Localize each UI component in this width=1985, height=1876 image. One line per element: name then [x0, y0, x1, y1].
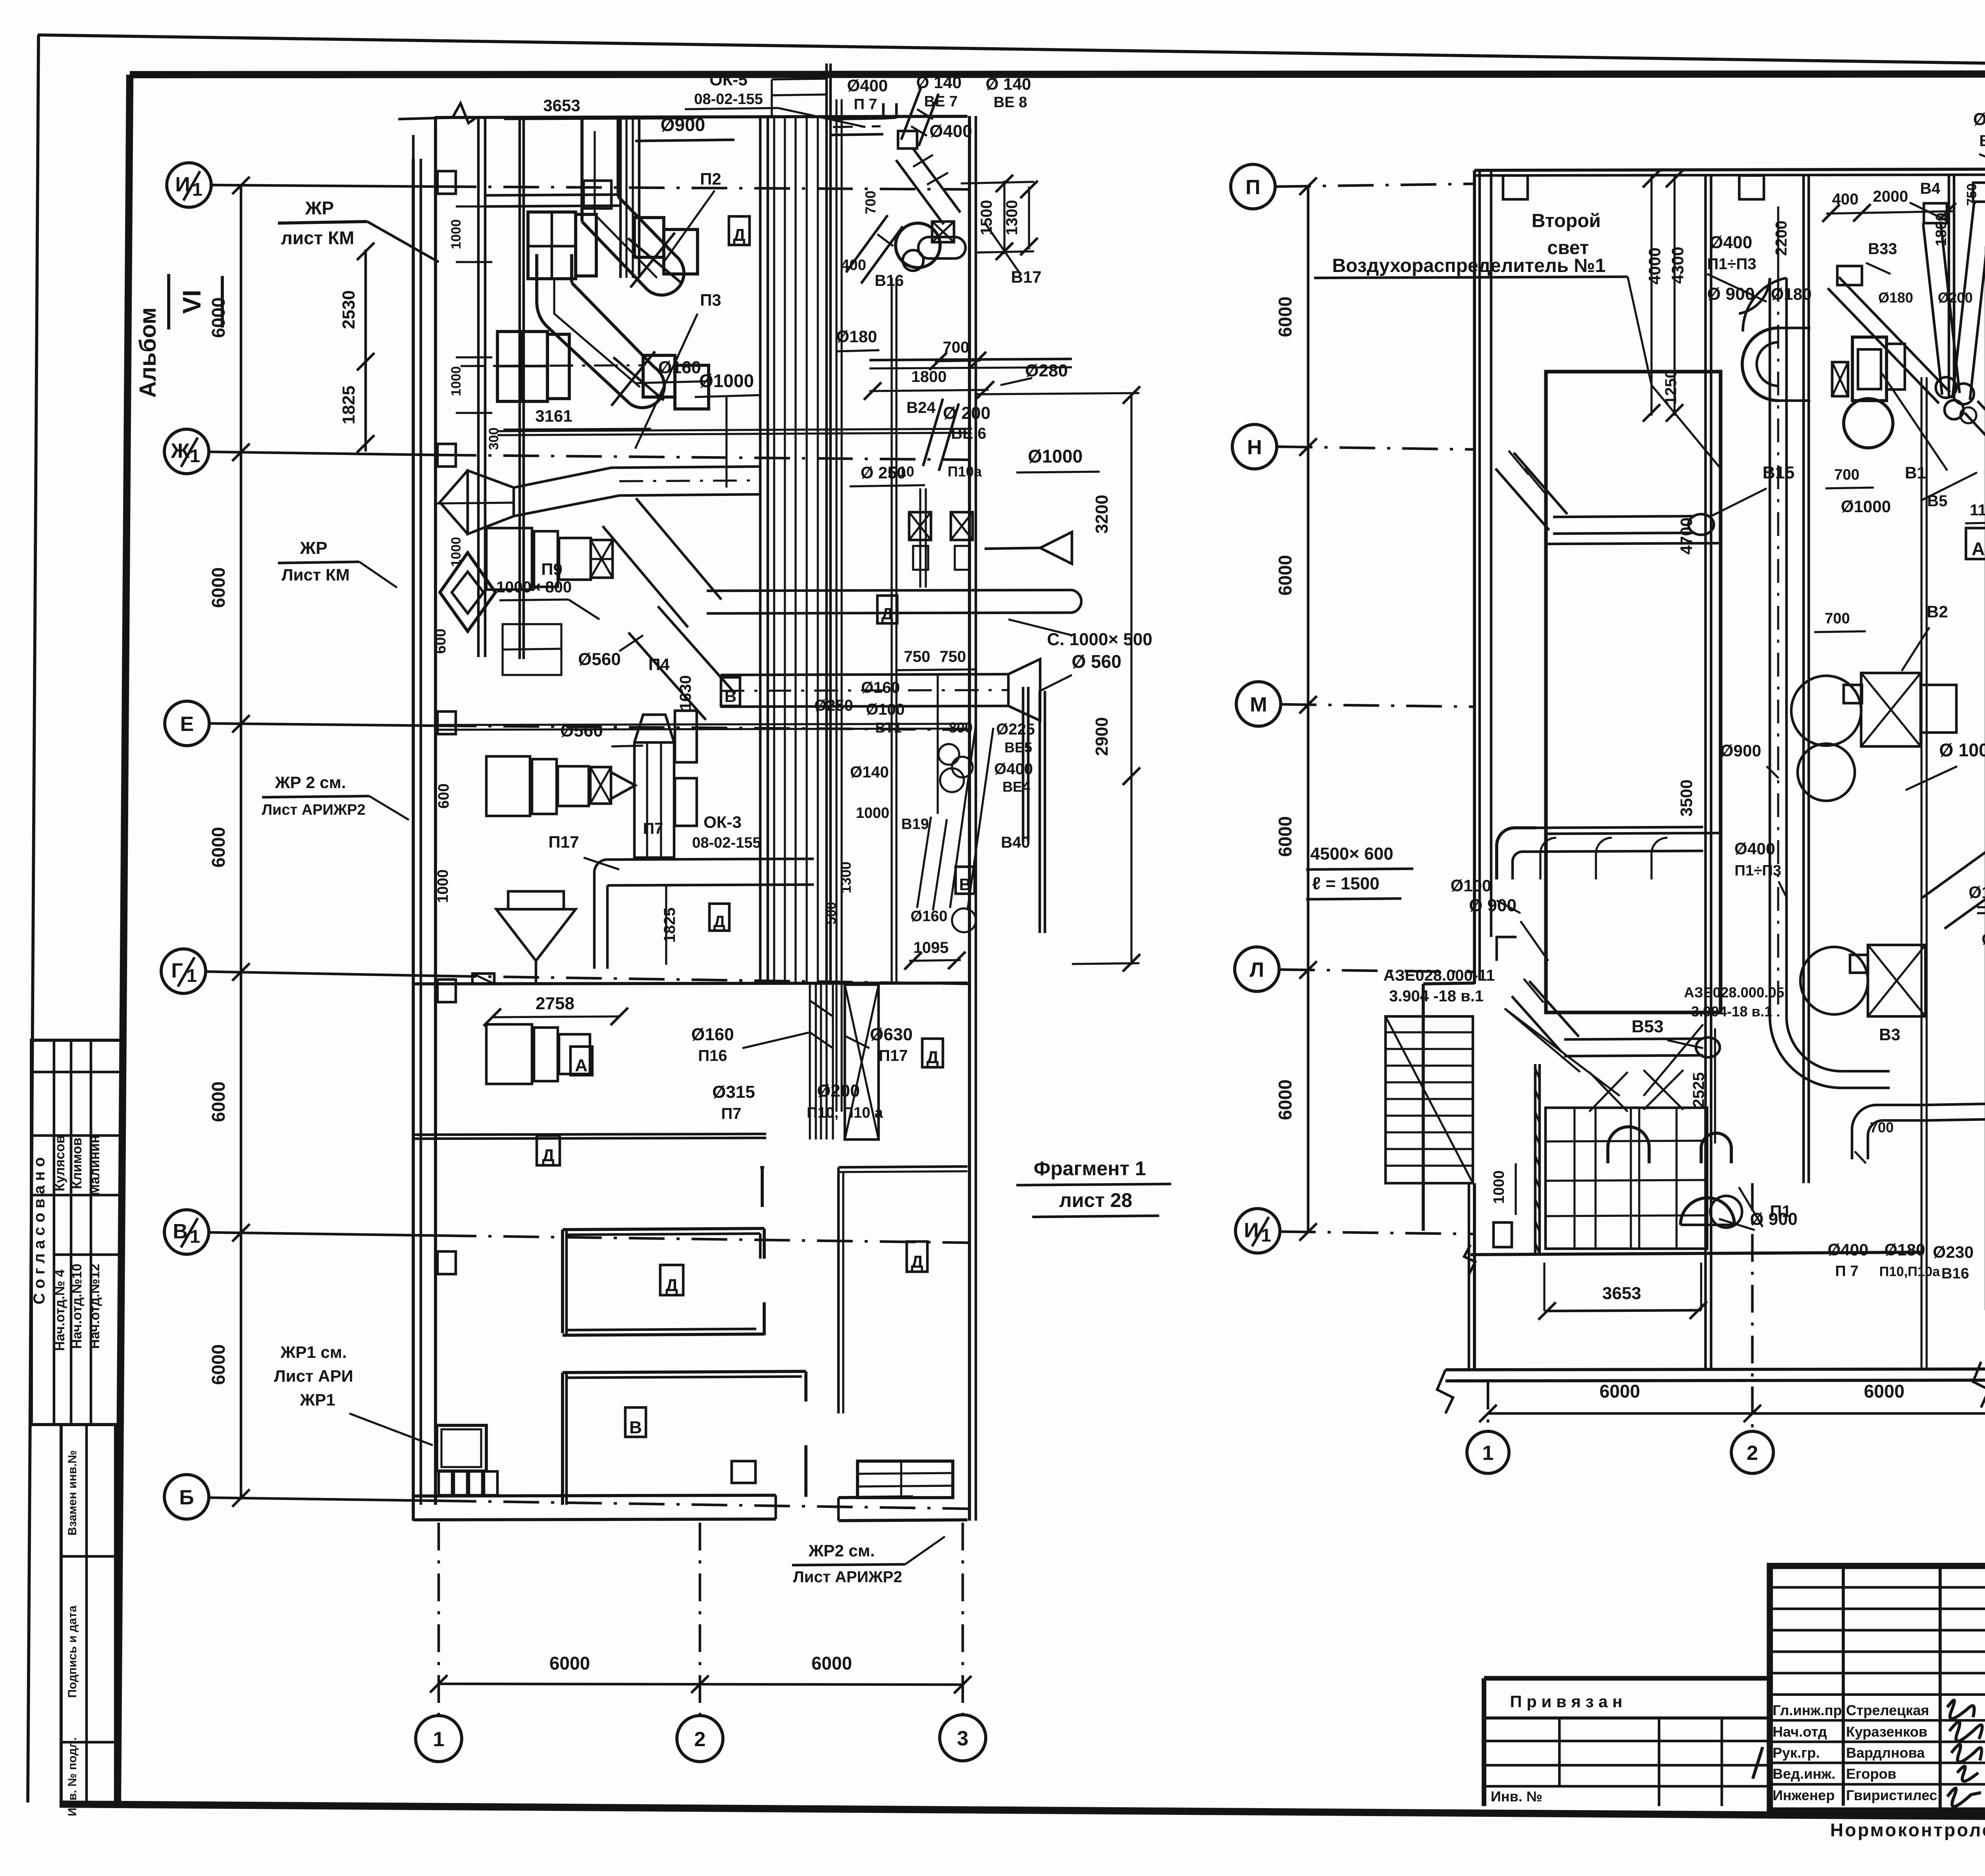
- exhaust cluster fitting circles: [1936, 377, 1956, 398]
- thin riser pair 1: [835, 99, 837, 1112]
- label В box mid: [755, 692, 755, 693]
- room B right posts: [804, 1371, 807, 1402]
- svg-text:Ø230: Ø230: [1933, 1243, 1974, 1261]
- left plan central shaft walls: [759, 116, 762, 984]
- svg-text:Ø100: Ø100: [866, 701, 905, 718]
- left plan room Д walls: [561, 1230, 564, 1333]
- fan cluster duct В16 diagonal: [846, 215, 888, 272]
- room label А mid: [570, 1047, 592, 1075]
- svg-text:Инв. №: Инв. №: [1491, 1788, 1542, 1805]
- svg-text:700: 700: [1825, 610, 1850, 627]
- duct П9 inlet cluster: [486, 528, 532, 590]
- svg-text:В33: В33: [1868, 240, 1897, 258]
- room label Д mid2: [709, 904, 729, 931]
- axis line 2 bottom: [699, 1523, 701, 1716]
- svg-text:1000: 1000: [449, 219, 464, 249]
- svg-text:Лист АРИ: Лист АРИ: [274, 1367, 353, 1385]
- svg-text:Стрелецкая: Стрелецкая: [1846, 1702, 1929, 1718]
- room label В mid: [721, 677, 740, 706]
- duct П3 fan cross: [613, 357, 664, 400]
- svg-text:Ø400: Ø400: [1828, 1240, 1869, 1259]
- duct c1000x500 run upper: [707, 590, 1072, 591]
- svg-text:1800: 1800: [912, 368, 947, 386]
- svg-text:П р и в я з а н: П р и в я з а н: [1510, 1692, 1622, 1711]
- right plan left wall: [1473, 170, 1476, 984]
- svg-text:6000: 6000: [1600, 1381, 1640, 1402]
- duct В15 diagonal: [1495, 469, 1549, 530]
- riser top funnels: [634, 715, 674, 742]
- small diag duct В24: [923, 399, 943, 466]
- duct П3 elbow diagonal: [537, 301, 630, 404]
- svg-text:3.904 -18 в.1: 3.904 -18 в.1: [1389, 987, 1484, 1005]
- axis line 1 right bottom: [1487, 1382, 1490, 1431]
- svg-text:В2: В2: [1927, 602, 1948, 621]
- hatch damper mid: [590, 767, 611, 804]
- svg-text:4000: 4000: [1645, 247, 1664, 284]
- axis line И/1 left: [211, 185, 441, 187]
- axis line Ж/1 left: [209, 452, 441, 455]
- svg-text:В1: В1: [1905, 463, 1926, 482]
- big riser rect with X: [845, 985, 879, 1139]
- svg-text:П1÷П3: П1÷П3: [1734, 862, 1781, 879]
- svg-text:ЖР2 см.: ЖР2 см.: [808, 1541, 875, 1560]
- room label Д upper-left: [537, 1136, 560, 1165]
- fan cluster duct Ф400 diagonal: [896, 160, 944, 224]
- svg-text:1: 1: [1261, 1225, 1271, 1246]
- exhaust duct В4 steep: [1923, 223, 1942, 395]
- svg-text:3653: 3653: [1602, 1284, 1641, 1303]
- left plan bottom right wall slab: [838, 1497, 913, 1498]
- exhaust duct Ф250 tail: [1965, 413, 1985, 472]
- axis line В/1 left: [209, 1232, 441, 1236]
- svg-text:1000: 1000: [1491, 1170, 1507, 1204]
- svg-text:ЖР 2 см.: ЖР 2 см.: [275, 773, 346, 792]
- room label Д big: [729, 216, 750, 245]
- duct П3 heater bank: [497, 332, 547, 401]
- svg-text:Лист АРИЖР2: Лист АРИЖР2: [793, 1568, 902, 1586]
- duct П17 left elbow: [594, 860, 607, 969]
- И1 horizontal duct pair: [485, 195, 619, 195]
- dim 2200 line: [1777, 206, 1779, 278]
- svg-text:С о г л а с о в а н о: С о г л а с о в а н о: [31, 1157, 48, 1305]
- svg-text:Д: Д: [911, 1252, 923, 1272]
- svg-text:Инв. № подл.: Инв. № подл.: [66, 1737, 79, 1816]
- svg-text:В40: В40: [1001, 834, 1030, 851]
- svg-text:Ø140: Ø140: [850, 764, 889, 781]
- title block signature rows: [1770, 1719, 1985, 1722]
- axis circle 3 left bottom: [940, 1715, 986, 1761]
- svg-text:Ø400: Ø400: [847, 76, 888, 95]
- supply riser X crossings: [1589, 1072, 1628, 1112]
- funnel into duct mid: [611, 772, 635, 799]
- right plan bottom break marks: [1437, 1370, 1453, 1413]
- svg-text:1000: 1000: [856, 805, 890, 821]
- svg-text:П10а: П10а: [948, 463, 982, 480]
- hall divider: [1546, 543, 1721, 544]
- room label А left: [570, 806, 571, 806]
- right plan stair block: [1386, 1016, 1473, 1183]
- svg-text:Ø180: Ø180: [836, 327, 877, 346]
- svg-text:Ø160: Ø160: [658, 358, 701, 377]
- svg-text:Гл.инж.пр.: Гл.инж.пр.: [1773, 1702, 1846, 1718]
- svg-text:6000: 6000: [811, 1653, 852, 1674]
- right plan column marks top: [1503, 175, 1528, 199]
- room label Д right mid: [922, 1039, 943, 1067]
- thin duct Ф160 run: [497, 429, 967, 431]
- svg-text:2530: 2530: [339, 290, 358, 329]
- room label В right: [956, 867, 975, 894]
- triangle arrow right: [1040, 532, 1072, 564]
- diamond funnel left wall: [440, 553, 495, 631]
- axis circle М right: [1236, 682, 1281, 726]
- svg-text:700: 700: [1834, 467, 1859, 483]
- room label В room2: [625, 1407, 646, 1437]
- duct П2 right rects: [634, 218, 664, 257]
- svg-text:700: 700: [862, 191, 879, 214]
- svg-text:Ø1000: Ø1000: [1841, 497, 1891, 516]
- duct Ф900 big elbow bottom: [1770, 1016, 1890, 1088]
- svg-text:750: 750: [940, 648, 966, 665]
- svg-text:Д: Д: [733, 226, 745, 245]
- vertical riser pair right plan a: [1920, 377, 1922, 1369]
- svg-text:Нач.отд.№ 4: Нач.отд.№ 4: [52, 1269, 67, 1351]
- hall divider 2: [1546, 833, 1721, 834]
- svg-text:Ø 900: Ø 900: [1750, 1209, 1798, 1229]
- svg-text:700: 700: [1870, 1119, 1894, 1136]
- duct П3 round cap: [630, 367, 664, 408]
- riser П16 П17 verticals: [809, 984, 811, 1139]
- svg-text:Д: Д: [713, 912, 725, 931]
- supply plant left hatch wall: [1534, 1064, 1537, 1254]
- title block outer box: [1770, 1566, 1985, 1810]
- svg-text:П17: П17: [879, 1047, 908, 1064]
- room label Д corridor: [877, 596, 897, 623]
- duct П2 vertical feed channel: [619, 118, 622, 278]
- room Д right door posts: [763, 1228, 766, 1259]
- left plan horizontal wall at Г1: [413, 983, 967, 984]
- svg-text:400: 400: [841, 257, 866, 274]
- svg-text:П3: П3: [700, 291, 721, 309]
- svg-text:Б: Б: [179, 1486, 194, 1509]
- dim ticks left wall: [456, 205, 492, 207]
- axis line П right: [1275, 184, 1474, 187]
- small fitting circles mid cluster: [952, 908, 976, 932]
- svg-text:6000: 6000: [208, 827, 229, 868]
- duct pair ВЕ4 vertical: [1022, 687, 1025, 842]
- svg-text:Второй: Второй: [1532, 210, 1601, 231]
- svg-text:6000: 6000: [208, 297, 229, 338]
- exhaust duct В6 diagonal: [1952, 201, 1974, 398]
- thin riser pair 2: [890, 278, 892, 985]
- svg-text:П10,П10а: П10,П10а: [1879, 1264, 1941, 1279]
- room B small box: [732, 1461, 755, 1483]
- svg-text:1000: 1000: [449, 366, 464, 396]
- svg-text:600: 600: [432, 629, 449, 654]
- svg-text:500: 500: [824, 902, 839, 925]
- fan hatch box В17: [932, 222, 954, 242]
- svg-text:1: 1: [433, 1728, 445, 1751]
- svg-text:Н: Н: [1247, 436, 1262, 459]
- small circles ВТ cluster: [939, 744, 959, 765]
- right plan big hall: [1546, 372, 1721, 1012]
- svg-text:Вед.инж.: Вед.инж.: [1773, 1766, 1835, 1782]
- svg-text:Гвиристилес: Гвиристилес: [1846, 1787, 1937, 1803]
- duct П2 fan cross: [628, 238, 682, 283]
- left plan room B walls: [561, 1373, 564, 1505]
- axis circle 2 left bottom: [677, 1716, 723, 1762]
- duct П4 right end flare: [1008, 659, 1040, 721]
- svg-text:4500× 600: 4500× 600: [1310, 844, 1393, 864]
- left plan top wall: [436, 116, 967, 118]
- svg-text:Д: Д: [926, 1048, 939, 1067]
- svg-text:1: 1: [187, 965, 197, 986]
- duct П4 lower diagonal: [628, 632, 706, 720]
- right plan inner wall x4909: [1948, 175, 1950, 397]
- duct П3 right rects: [643, 355, 675, 397]
- left plan lower right wall: [838, 1166, 967, 1167]
- svg-text:Нач.отд.№12: Нач.отд.№12: [87, 1264, 102, 1349]
- axis line Л right: [1279, 970, 1474, 972]
- duct П2 inner line: [595, 131, 657, 278]
- svg-text:6000: 6000: [549, 1653, 590, 1674]
- svg-text:6000: 6000: [208, 567, 229, 608]
- right plan left lower wall: [1422, 984, 1425, 1231]
- left plan bottom wall slab: [413, 1495, 776, 1496]
- left plan right wall: [968, 116, 971, 1521]
- thin duct Ф160 long horizontal: [437, 503, 514, 503]
- fan В1 side box: [1887, 344, 1905, 389]
- svg-text:2000: 2000: [1873, 188, 1908, 205]
- svg-text:Ø400: Ø400: [1734, 839, 1775, 858]
- diag duct ВЕ5: [950, 725, 976, 908]
- duct П3 label: [635, 314, 698, 449]
- svg-text:Ø400: Ø400: [994, 760, 1033, 778]
- left plan shaft multi lines: [773, 116, 775, 984]
- svg-text:Е: Е: [180, 713, 194, 736]
- duct П2 vertical segment: [580, 118, 584, 222]
- axis line М right: [1281, 704, 1474, 707]
- fan В1 hatch connector: [1832, 362, 1848, 396]
- axis line Е left: [209, 723, 441, 726]
- svg-text:Егоров: Егоров: [1846, 1766, 1896, 1782]
- svg-text:Ø1000: Ø1000: [1028, 446, 1083, 467]
- svg-text:П9: П9: [541, 560, 563, 578]
- svg-text:Ø315: Ø315: [712, 1082, 755, 1102]
- axis circle Е left: [165, 701, 209, 746]
- duct В53 diagonal: [1512, 996, 1561, 1052]
- room label Д right low: [907, 1242, 927, 1272]
- svg-text:П 7: П 7: [854, 96, 877, 113]
- vertical axis dim line left: [240, 185, 243, 1498]
- svg-text:3161: 3161: [535, 407, 572, 425]
- svg-text:Ø 200: Ø 200: [943, 403, 991, 423]
- fan В3 cluster: [1800, 947, 1868, 1014]
- fan В2 cluster: [1791, 676, 1861, 746]
- stair treads: [1386, 1031, 1473, 1033]
- title block revision grid columns: [1842, 1566, 1845, 1806]
- fan В17 circles: [896, 223, 940, 268]
- svg-text:ℓ = 1500: ℓ = 1500: [1312, 874, 1380, 893]
- svg-text:П16: П16: [698, 1047, 727, 1064]
- axis circle 2 right bottom: [1731, 1431, 1773, 1473]
- svg-text:Ø 140: Ø 140: [916, 73, 962, 92]
- svg-text:Ø560: Ø560: [578, 650, 621, 669]
- duct П2 leader: [664, 191, 715, 262]
- fan В1 duct half-round: [1742, 328, 1779, 401]
- svg-text:ЖР1 см.: ЖР1 см.: [280, 1343, 347, 1361]
- sheet outer border top: [38, 35, 1985, 71]
- duct cluster В7 right mid: [1977, 906, 1985, 907]
- svg-text:Инженер: Инженер: [1773, 1787, 1835, 1803]
- svg-text:Воздухораспределитель №1: Воздухораспределитель №1: [1332, 255, 1606, 276]
- svg-text:лист КМ: лист КМ: [281, 228, 355, 248]
- svg-text:Кулясов: Кулясов: [52, 1135, 67, 1191]
- privyazan table: [1484, 1676, 1770, 1681]
- svg-text:6000: 6000: [1275, 297, 1295, 337]
- left plan inner corridor wall 1: [477, 118, 480, 657]
- axis circle 1 left bottom: [416, 1716, 462, 1762]
- plenum box top: [1536, 827, 1703, 828]
- svg-text:Ø160: Ø160: [1982, 931, 1985, 948]
- left plan horizontal wall lower: [413, 1134, 766, 1135]
- svg-text:ОК-3: ОК-3: [703, 813, 742, 831]
- left plan left wall top break: [398, 103, 476, 123]
- supply unit fan П1 semicircle: [1681, 1198, 1734, 1225]
- fan В2 inlet circle: [1798, 744, 1855, 801]
- axis line Г/1 left: [206, 972, 441, 976]
- svg-text:2: 2: [694, 1728, 706, 1751]
- inventory stamp table: [61, 1425, 116, 1805]
- fan В1 unit: [1852, 337, 1887, 401]
- svg-text:ЖР: ЖР: [305, 198, 334, 218]
- duct П4 horizontal run: [721, 674, 1008, 675]
- svg-text:Ø 900: Ø 900: [1469, 896, 1517, 915]
- room label Д room1: [660, 1265, 683, 1295]
- duct right rounded end: [1072, 590, 1081, 613]
- svg-text:1300: 1300: [1003, 200, 1021, 235]
- svg-text:4300: 4300: [1668, 247, 1687, 283]
- svg-text:Ø125: Ø125: [1969, 883, 1985, 902]
- svg-text:Ø200: Ø200: [1938, 289, 1973, 306]
- axis circle Б left: [164, 1475, 209, 1519]
- svg-text:Ø180: Ø180: [1885, 1240, 1925, 1259]
- riser diag marks: [810, 1001, 833, 1016]
- left plan bottom equipment box: [437, 1425, 486, 1471]
- svg-text:750: 750: [904, 648, 931, 665]
- svg-text:1000: 1000: [435, 870, 451, 903]
- right plan inner wall x4296: [1704, 175, 1707, 1370]
- signature scribbles: [1947, 1700, 1974, 1719]
- right plan bottom wall: [1445, 1369, 1985, 1370]
- svg-text:Лист АРИЖР2: Лист АРИЖР2: [262, 802, 365, 818]
- svg-text:ВЕ 7: ВЕ 7: [924, 93, 958, 110]
- inner frame left: [118, 75, 130, 1805]
- axis circle 1 right bottom: [1467, 1431, 1509, 1473]
- svg-text:Куразенков: Куразенков: [1846, 1724, 1927, 1740]
- stair side hatch: [1386, 1016, 1473, 1183]
- exhaust cluster small boxes: [1837, 266, 1862, 285]
- svg-text:6000: 6000: [208, 1082, 229, 1122]
- fan cluster duct ВЕ7 diagonal: [919, 94, 939, 146]
- svg-text:3653: 3653: [543, 96, 580, 115]
- svg-text:Взамен инв.№: Взамен инв.№: [66, 1450, 79, 1536]
- duct П17 horizontal: [607, 859, 814, 860]
- vertical duct Ф900 main right plan: [1769, 278, 1771, 1016]
- svg-text:1: 1: [1482, 1442, 1494, 1465]
- funnel device lower left: [496, 909, 576, 961]
- main horizontal duct Ф1000: [514, 467, 761, 488]
- vertical duct top elbow: [1739, 278, 1770, 314]
- svg-text:Л: Л: [1250, 958, 1264, 981]
- svg-text:1800: 1800: [1933, 213, 1950, 247]
- left plan bottom right equipment: [858, 1461, 953, 1498]
- vertical riser pair right plan b: [1985, 246, 1985, 1310]
- right plan top wall: [1474, 169, 1985, 170]
- inner frame top: [130, 74, 1985, 75]
- svg-text:Ø100: Ø100: [1451, 876, 1492, 895]
- svg-text:В16: В16: [875, 272, 904, 289]
- duct В3 diagonal big: [1945, 857, 1985, 929]
- svg-text:Фрагмент 1: Фрагмент 1: [1033, 1157, 1146, 1180]
- svg-text:Ø 560: Ø 560: [1072, 651, 1121, 672]
- svg-text:2900: 2900: [1092, 717, 1112, 756]
- hatch marks elbow: [1855, 1151, 1866, 1163]
- shaft lines above top wall: [772, 79, 827, 79]
- svg-text:750: 750: [1964, 183, 1979, 206]
- svg-text:лист 28: лист 28: [1059, 1189, 1132, 1211]
- svg-text:6000: 6000: [208, 1344, 229, 1385]
- duct П2 elbow diagonal: [582, 222, 648, 290]
- svg-text:П4: П4: [648, 655, 670, 674]
- svg-text:6000: 6000: [1275, 555, 1295, 596]
- svg-text:Ø160: Ø160: [861, 679, 900, 696]
- svg-text:600: 600: [436, 783, 452, 808]
- svg-text:ВЕ 6: ВЕ 6: [951, 425, 987, 442]
- svg-text:АЗЕ028.000.05: АЗЕ028.000.05: [1684, 984, 1785, 1001]
- svg-text:ВЕ 11: ВЕ 11: [1979, 132, 1985, 150]
- axis circle И/1 right: [1235, 1209, 1280, 1253]
- svg-text:Ø 900: Ø 900: [1707, 284, 1755, 304]
- axis line 3 bottom: [962, 1523, 964, 1715]
- duct П7 vertical riser group: [634, 742, 674, 858]
- duct П10 pair down: [919, 488, 921, 588]
- inner frame bottom: [60, 1804, 1985, 1820]
- svg-text:3.904-18 в.1: 3.904-18 в.1: [1691, 1003, 1772, 1020]
- svg-text:1500: 1500: [978, 200, 995, 235]
- fan В17 oval stub: [918, 237, 966, 258]
- axis line И/1 right: [1280, 1232, 1474, 1234]
- svg-text:П10, П10 а: П10, П10 а: [807, 1105, 883, 1121]
- svg-text:В53: В53: [1632, 1017, 1664, 1036]
- svg-text:П1÷П3: П1÷П3: [1707, 255, 1756, 273]
- svg-text:1: 1: [190, 445, 200, 466]
- svg-text:6000: 6000: [1275, 816, 1295, 857]
- И1 floor line right plan: [1470, 1252, 1921, 1255]
- right plan lower left wall verticals: [1473, 1183, 1476, 1370]
- bottom dim line right plan: [1488, 1412, 1985, 1415]
- svg-text:Ø400: Ø400: [929, 121, 972, 141]
- svg-text:АЗЕ028.000-11: АЗЕ028.000-11: [1384, 967, 1495, 984]
- supply duct П caps: [1608, 1127, 1649, 1163]
- axis circle В/1 left: [164, 1210, 209, 1254]
- axis line Б left: [209, 1498, 441, 1501]
- svg-text:Малинин: Малинин: [87, 1135, 102, 1195]
- svg-text:3500: 3500: [1677, 779, 1696, 816]
- duct to vent cluster: [1925, 1104, 1985, 1105]
- fan small boxes: [898, 131, 917, 148]
- hatch damper П9: [591, 540, 613, 578]
- svg-text:П17: П17: [549, 833, 579, 851]
